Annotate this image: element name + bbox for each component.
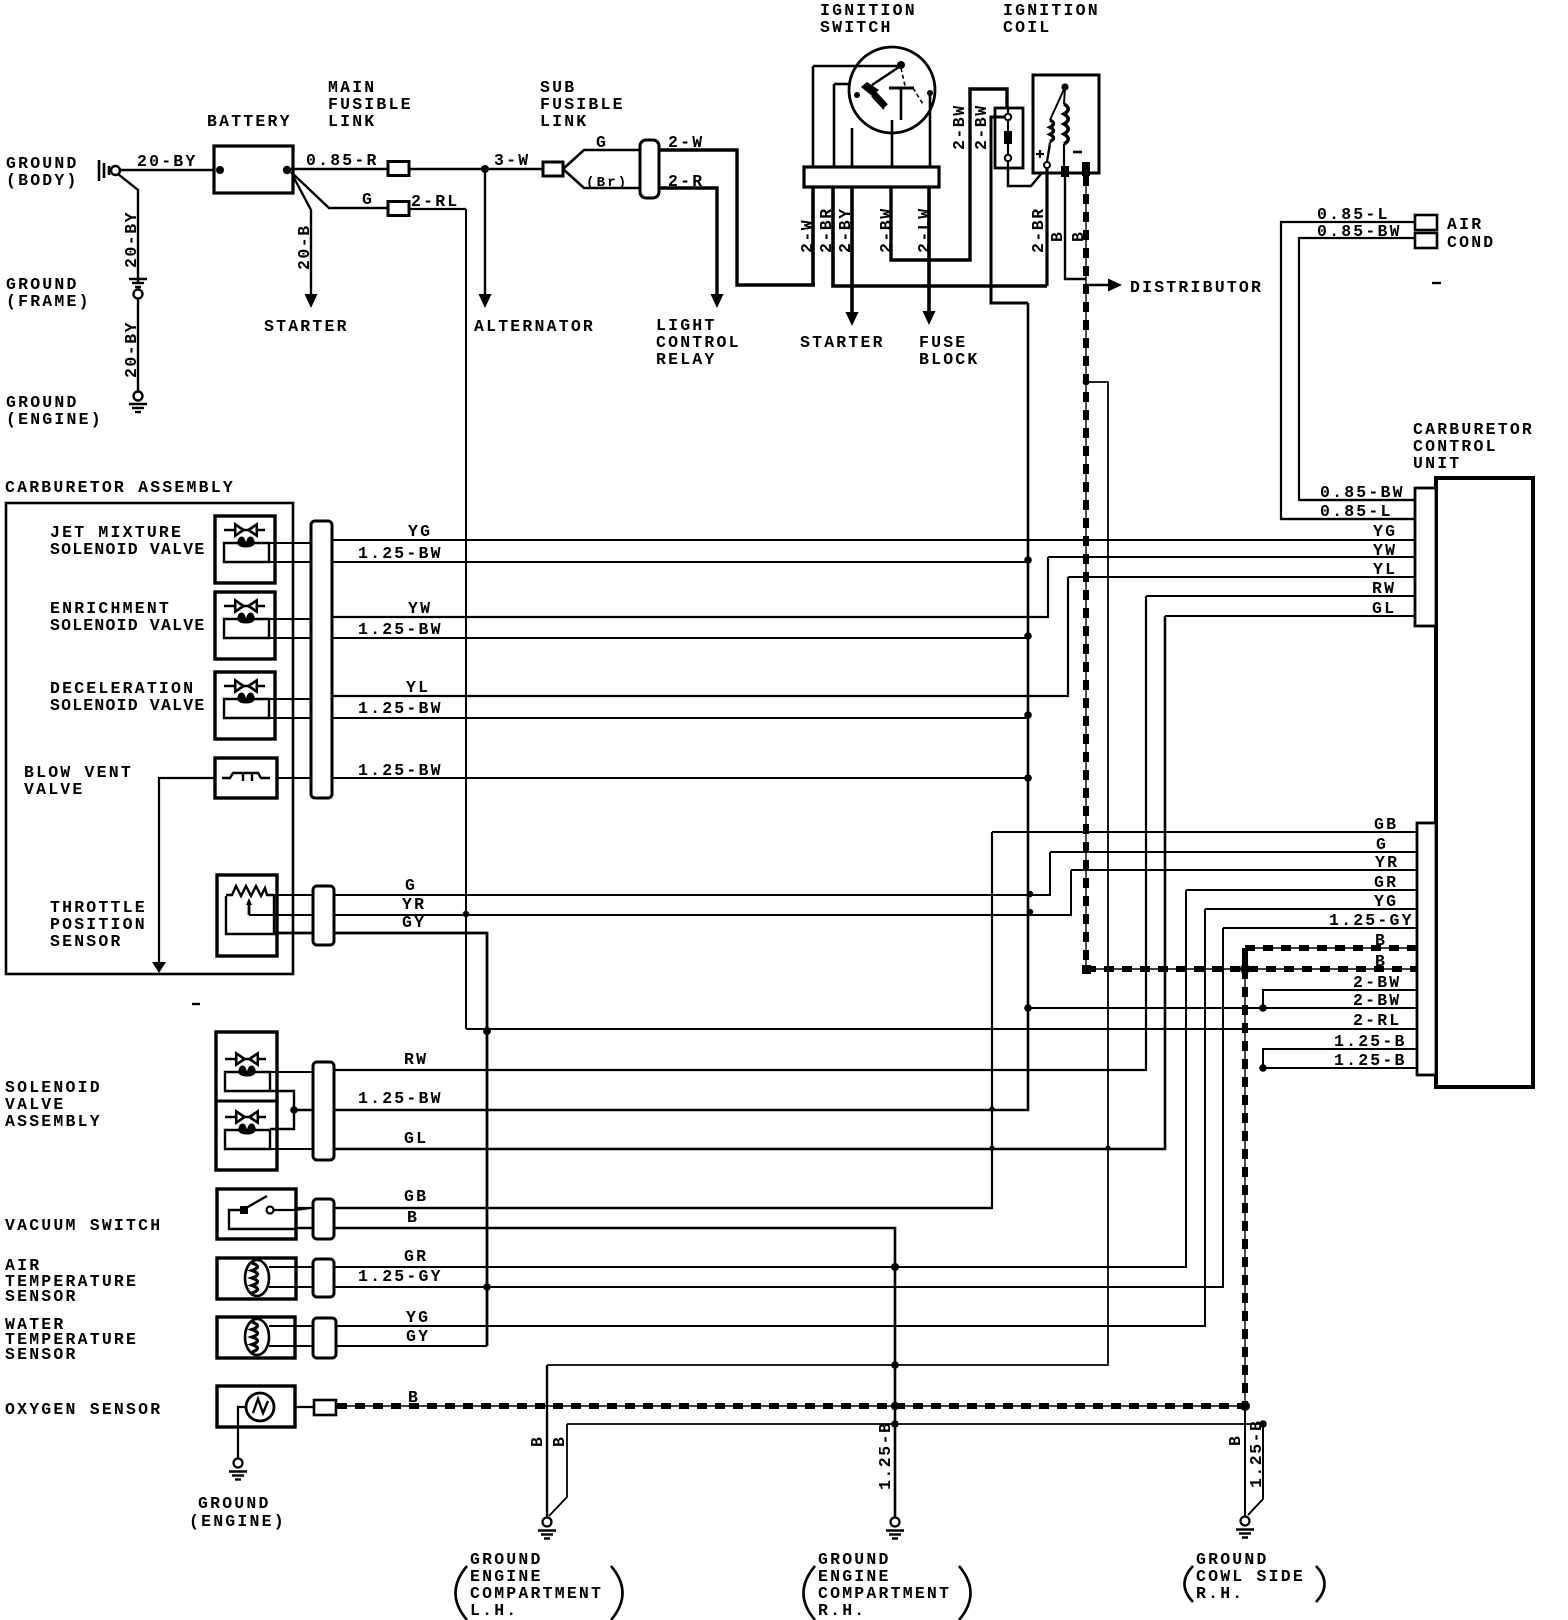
- wire GL to unit: [1165, 615, 1415, 617]
- svg-text:GB: GB: [404, 1187, 428, 1206]
- riser YR throttle: [249, 870, 1071, 915]
- wire 1.25-GY from sensor: [269, 1286, 313, 1288]
- wire 20-BY ground body to battery: [120, 169, 215, 172]
- svg-text:YG: YG: [1374, 892, 1398, 911]
- ground cowl side symbol: [1241, 1517, 1250, 1526]
- svg-text:B: B: [407, 1208, 419, 1227]
- wire oxygen sensor to ground: [238, 1407, 246, 1458]
- ignition switch frame: [834, 83, 849, 86]
- wire 1.25-BW enrichment to bus: [269, 637, 1028, 639]
- svg-text:LINK: LINK: [540, 112, 588, 131]
- svg-text:ASSEMBLY: ASSEMBLY: [5, 1112, 102, 1131]
- svg-text:BATTERY: BATTERY: [207, 112, 292, 131]
- svg-text:2-BW: 2-BW: [950, 104, 969, 150]
- junction dashed at cowl corner: [1240, 1401, 1250, 1411]
- junction dots scan blobs: [1027, 891, 1033, 897]
- svg-text:20-BY: 20-BY: [122, 321, 141, 378]
- oxygen sensor element: [246, 1393, 274, 1421]
- riser GR: [296, 890, 1186, 1267]
- svg-text:YR: YR: [402, 895, 426, 914]
- oxygen sensor ground symbol: [234, 1459, 243, 1468]
- svg-text:2-BR: 2-BR: [1029, 207, 1048, 253]
- riser 1.25-GY: [296, 928, 1223, 1287]
- wire 1.25-GY to unit: [1223, 927, 1416, 929]
- wire 0.85-BW into unit: [1299, 499, 1415, 501]
- wire YR to unit: [1071, 869, 1416, 871]
- svg-text:YW: YW: [1373, 541, 1397, 560]
- junction enrichment 1.25-BW: [1024, 632, 1032, 640]
- wire YG water to unit: [1205, 908, 1416, 910]
- wire GY throttle to gy bus: [274, 933, 487, 1346]
- wire 1.25-B second to unit: [1263, 1067, 1416, 1069]
- vacuum switch box: [217, 1189, 296, 1239]
- wire GR to unit: [1186, 889, 1416, 891]
- wire oxygen sensor to connector: [295, 1406, 314, 1408]
- svg-text:B: B: [1048, 231, 1067, 242]
- air temperature sensor box: [217, 1258, 296, 1299]
- svg-text:YR: YR: [1375, 853, 1399, 872]
- svg-text:1.25-BW: 1.25-BW: [358, 1089, 443, 1108]
- svg-text:20-B: 20-B: [295, 224, 314, 270]
- wire ground body down to frame/engine ground: [118, 174, 138, 283]
- ground engine compartment L.H. symbol: [543, 1518, 552, 1527]
- svg-text:SOLENOID VALVE: SOLENOID VALVE: [50, 616, 205, 635]
- svg-text:1.25-B: 1.25-B: [876, 1422, 895, 1490]
- svg-text:G: G: [1376, 835, 1388, 854]
- svg-text:G: G: [362, 190, 374, 209]
- blow vent element: [222, 773, 270, 781]
- wire 20-B battery to starter: [293, 176, 311, 296]
- carburetor control unit box: [1436, 478, 1533, 1087]
- wire YL to unit: [1068, 576, 1415, 578]
- svg-text:1.25-GY: 1.25-GY: [1329, 911, 1414, 930]
- svg-text:SENSOR: SENSOR: [5, 1287, 78, 1306]
- svg-text:RELAY: RELAY: [656, 350, 717, 369]
- condenser box: [995, 108, 1023, 168]
- svg-text:G: G: [596, 133, 608, 152]
- wire 2-W ignition vertical: [811, 187, 815, 285]
- ground engine compartment R.H. symbol: [891, 1518, 900, 1527]
- wire frame ground to engine ground: [137, 299, 139, 392]
- svg-text:SOLENOID VALVE: SOLENOID VALVE: [50, 540, 205, 559]
- svg-text:YL: YL: [1373, 560, 1397, 579]
- wire GB bar to riser: [334, 1207, 992, 1209]
- ground L.H. drop: [546, 1365, 548, 1517]
- svg-text:2-W: 2-W: [798, 219, 817, 253]
- svg-text:OXYGEN SENSOR: OXYGEN SENSOR: [5, 1400, 162, 1419]
- sub fusible link capsule: [640, 140, 659, 198]
- svg-text:VACUUM SWITCH: VACUUM SWITCH: [5, 1216, 162, 1235]
- throttle resistor zigzag: [226, 886, 274, 896]
- wire 1.25-BW jet to bus: [269, 561, 1028, 563]
- wire 2-BY ignition to starter: [850, 187, 854, 315]
- junction blow vent 1.25-BW: [1024, 774, 1032, 782]
- wire 0.85-L into unit: [1281, 518, 1415, 520]
- svg-text:1.25-B: 1.25-B: [1334, 1032, 1407, 1051]
- fuse main fusible link: [388, 162, 409, 176]
- svg-text:GR: GR: [404, 1247, 428, 1266]
- wire 2-BW ignition to coil: [891, 89, 1007, 260]
- wire YW to unit: [1048, 556, 1415, 558]
- oxygen sensor box: [217, 1386, 295, 1427]
- junction 1.25-GY on gy bus: [483, 1283, 491, 1291]
- svg-text:GROUND: GROUND: [198, 1494, 271, 1513]
- wire battery to 2-RL fuse: [291, 172, 388, 208]
- wire RW to unit: [1146, 595, 1415, 597]
- junction B at ground R.H.: [891, 1361, 899, 1369]
- svg-text:LINK: LINK: [328, 112, 376, 131]
- wire 2-R to light control relay: [659, 188, 717, 296]
- wire GB to unit: [992, 831, 1416, 833]
- solenoid valve assembly valve1 wires: [270, 1071, 313, 1073]
- wire G to unit: [1050, 851, 1416, 853]
- carburetor assembly box: [6, 503, 293, 974]
- svg-text:SENSOR: SENSOR: [5, 1345, 78, 1364]
- svg-text:1.25-BW: 1.25-BW: [358, 544, 443, 563]
- wire GL from valve2: [270, 1148, 313, 1150]
- svg-text:2-BW: 2-BW: [972, 104, 991, 150]
- wire YL from deceleration valve: [269, 698, 313, 700]
- coil plus terminal: [1036, 153, 1044, 155]
- svg-text:YG: YG: [406, 1308, 430, 1327]
- svg-text:0.85-BW: 0.85-BW: [1320, 483, 1405, 502]
- wire 2-LW ignition to fuse block: [927, 187, 931, 314]
- svg-text:B: B: [1375, 952, 1387, 971]
- junction dashed at ground R.H.: [891, 1402, 899, 1410]
- wire blow vent to assembly bottom: [159, 778, 215, 970]
- wire B dashed lower to unit: [1086, 968, 1416, 970]
- wire 1.25-B diagonal to ground L.H.: [549, 1424, 567, 1516]
- wire alternator drop: [484, 169, 486, 297]
- wire 1.25-B horizontal to grounds: [567, 1423, 1263, 1425]
- svg-text:0.85-R: 0.85-R: [306, 151, 379, 170]
- wire GY from water sensor: [269, 1345, 313, 1347]
- svg-text:GB: GB: [1374, 815, 1398, 834]
- wire 0.85-L to air cond: [1281, 222, 1415, 519]
- svg-text:SWITCH: SWITCH: [820, 18, 893, 37]
- svg-text:2-BY: 2-BY: [836, 207, 855, 253]
- ignition coil windings: [1061, 83, 1068, 90]
- wire 1.25-BW deceleration to bus: [269, 717, 1028, 719]
- wire 2-RL vertical down to control unit row: [465, 209, 467, 1029]
- wire YW from enrichment valve: [269, 618, 313, 620]
- wire YG from water sensor: [269, 1325, 313, 1327]
- svg-text:20-BY: 20-BY: [137, 152, 198, 171]
- svg-text:COND: COND: [1447, 233, 1495, 252]
- svg-text:1.25-BW: 1.25-BW: [358, 620, 443, 639]
- svg-text:GY: GY: [406, 1327, 430, 1346]
- svg-text:3-W: 3-W: [494, 151, 530, 170]
- wire 2-BW second to unit: [1028, 1007, 1416, 1009]
- svg-text:2-BW: 2-BW: [877, 207, 896, 253]
- svg-text:B: B: [528, 1436, 547, 1447]
- riser YL: [332, 577, 1068, 696]
- water temp connector bar: [313, 1318, 336, 1358]
- bus 2-BW vertical: [294, 303, 1028, 1110]
- wire 1.25-BW assembly to bus: [294, 1109, 311, 1111]
- unit upper connector strip: [1415, 488, 1436, 626]
- svg-text:B: B: [1375, 931, 1387, 950]
- dashed up corner to unit B: [1085, 968, 1087, 970]
- svg-text:ALTERNATOR: ALTERNATOR: [474, 317, 595, 336]
- svg-text:YG: YG: [1373, 522, 1397, 541]
- junction 2-BW to unit: [1024, 1004, 1032, 1012]
- svg-text:B: B: [408, 1388, 420, 1407]
- svg-text:YW: YW: [408, 599, 432, 618]
- wire B coil to distributor line: [1065, 177, 1086, 279]
- vacuum switch symbol: [229, 1210, 296, 1229]
- sub fusible link chevron: [563, 150, 640, 169]
- svg-text:2-BR: 2-BR: [817, 207, 836, 253]
- svg-text:AIR: AIR: [1447, 215, 1483, 234]
- coil bottom terminals: [1061, 166, 1069, 177]
- svg-text:UNIT: UNIT: [1413, 454, 1461, 473]
- coil minus terminal: [1073, 151, 1082, 154]
- stray mark: [1432, 282, 1441, 284]
- water temp sensor element: [245, 1319, 269, 1355]
- wire YG from jet valve: [269, 542, 311, 544]
- throttle wiper arrow: [246, 898, 252, 905]
- ground (engine) symbol: [134, 392, 143, 401]
- svg-text:1.25-GY: 1.25-GY: [358, 1267, 443, 1286]
- air temp sensor element: [245, 1260, 269, 1296]
- ignition switch connector bar: [804, 167, 939, 187]
- svg-text:(Br): (Br): [586, 175, 628, 191]
- wire YG jet mixture to unit: [332, 539, 1415, 541]
- wire 2-W to ignition switch: [659, 150, 815, 285]
- svg-text:RW: RW: [404, 1050, 428, 1069]
- connector sub fusible link: [543, 162, 563, 176]
- riser GB: [296, 832, 992, 1208]
- enrichment solenoid valve: [215, 592, 275, 659]
- svg-text:1.25-BW: 1.25-BW: [358, 699, 443, 718]
- svg-text:L.H.: L.H.: [470, 1601, 518, 1620]
- svg-text:GL: GL: [1372, 599, 1396, 618]
- wire 1.25-B to ground cowl side: [1248, 1424, 1263, 1515]
- svg-text:1.25-B: 1.25-B: [1334, 1051, 1407, 1070]
- solenoid valve assembly valve2: [225, 1116, 266, 1118]
- wire 2-BR ignition vertical: [833, 187, 1047, 286]
- wire 2-BR coil down: [1045, 168, 1048, 286]
- fuse 2-RL link: [388, 202, 409, 216]
- wire 1.25-B first to unit: [1263, 1049, 1416, 1068]
- solenoid valve assembly box: [216, 1032, 277, 1170]
- condenser element: [1007, 108, 1009, 114]
- wire 2-RL to vertical: [409, 208, 466, 210]
- svg-text:STARTER: STARTER: [264, 317, 349, 336]
- svg-text:1.25-B: 1.25-B: [1247, 1420, 1266, 1488]
- junction alternator: [481, 165, 489, 173]
- ignition coil box: [1033, 75, 1099, 173]
- wire GY water temp to gy bus: [296, 1345, 487, 1347]
- wire B to ground cowl side: [1244, 1406, 1246, 1516]
- ignition switch circle: [849, 47, 935, 133]
- svg-text:BLOCK: BLOCK: [919, 350, 980, 369]
- wire 0.85-BW to air cond: [1299, 238, 1415, 500]
- svg-text:(FRAME): (FRAME): [6, 292, 91, 311]
- svg-text:2-BW: 2-BW: [1353, 991, 1401, 1010]
- wire 2-BW condenser branch: [991, 117, 1028, 303]
- riser RW: [334, 596, 1146, 1070]
- oxygen connector: [314, 1400, 336, 1415]
- riser YG water: [296, 909, 1205, 1326]
- wire GR from sensor: [269, 1266, 313, 1268]
- wire B branch from distributor line: [547, 382, 1108, 1365]
- svg-text:DISTRIBUTOR: DISTRIBUTOR: [1130, 278, 1263, 297]
- svg-text:0.85-L: 0.85-L: [1320, 502, 1393, 521]
- svg-text:SOLENOID VALVE: SOLENOID VALVE: [50, 696, 205, 715]
- solenoid valve assembly valve1: [225, 1058, 266, 1060]
- dashed corner at cowl: [1244, 969, 1246, 1406]
- wire 2-RL to unit: [466, 1028, 1416, 1030]
- dashed corner blob: [1082, 965, 1091, 974]
- throttle inner rect: [226, 896, 274, 934]
- svg-text:(BODY): (BODY): [6, 171, 79, 190]
- svg-text:(ENGINE): (ENGINE): [6, 410, 103, 429]
- wire 2-BW first to unit: [1263, 990, 1416, 1008]
- riser GL: [334, 616, 1165, 1149]
- deceleration solenoid valve: [215, 672, 275, 739]
- ground (frame) symbol: [129, 278, 147, 280]
- water temperature sensor box: [217, 1317, 295, 1358]
- unit lower connector strip: [1417, 823, 1436, 1075]
- vacuum connector bar: [313, 1199, 334, 1239]
- svg-text:2-LW: 2-LW: [915, 207, 934, 253]
- wire to distributor: [1086, 284, 1112, 287]
- junction deceleration 1.25-BW: [1024, 711, 1032, 719]
- junction jet 1.25-BW: [1024, 556, 1032, 564]
- riser G throttle: [267, 852, 1050, 895]
- air temp connector bar: [313, 1259, 334, 1297]
- battery: [214, 146, 293, 193]
- ground (body) symbol: [98, 160, 101, 181]
- throttle connector bar: [313, 886, 334, 945]
- svg-text:R.H.: R.H.: [1196, 1584, 1244, 1603]
- stray tick: [192, 1003, 200, 1005]
- air cond connector boxes: [1415, 215, 1437, 230]
- wire B vacuum switch to ground bus: [296, 1228, 895, 1517]
- valve connector bar: [311, 521, 332, 798]
- svg-text:2-BW: 2-BW: [1353, 973, 1401, 992]
- svg-text:0.85-BW: 0.85-BW: [1317, 222, 1402, 241]
- svg-text:CARBURETOR ASSEMBLY: CARBURETOR ASSEMBLY: [5, 478, 235, 497]
- svg-text:GR: GR: [1374, 873, 1398, 892]
- svg-text:STARTER: STARTER: [800, 333, 885, 352]
- svg-text:YG: YG: [408, 522, 432, 541]
- wire condenser to coil plus terminal: [1008, 168, 1046, 186]
- svg-text:VALVE: VALVE: [24, 780, 85, 799]
- wire 0.85-R battery to main fusible link: [291, 168, 388, 170]
- svg-text:R.H.: R.H.: [818, 1601, 866, 1620]
- wire oxygen sensor B dashed: [337, 1405, 1245, 1407]
- wire B dashed upper to unit: [1245, 947, 1416, 949]
- throttle position sensor: [217, 875, 277, 956]
- ignition switch internals: [897, 61, 905, 69]
- svg-text:G: G: [405, 876, 417, 895]
- wire 1.25-BW blow vent to bus: [277, 777, 1028, 779]
- svg-text:(ENGINE): (ENGINE): [189, 1512, 286, 1531]
- wire GB from switch: [274, 1209, 296, 1211]
- svg-text:2-RL: 2-RL: [1353, 1011, 1401, 1030]
- svg-text:YL: YL: [406, 678, 430, 697]
- riser YW: [332, 557, 1048, 617]
- jet mixture solenoid valve: [215, 516, 275, 583]
- svg-text:GL: GL: [404, 1129, 428, 1148]
- solenoid assembly connector bar: [313, 1062, 334, 1160]
- svg-text:SENSOR: SENSOR: [50, 932, 123, 951]
- svg-text:20-BY: 20-BY: [122, 211, 141, 268]
- svg-text:COIL: COIL: [1003, 18, 1051, 37]
- wire B distributor dashed vertical: [1085, 176, 1087, 969]
- svg-text:GY: GY: [402, 913, 426, 932]
- blow vent valve: [215, 758, 277, 798]
- svg-text:B: B: [1226, 1435, 1245, 1446]
- svg-text:RW: RW: [1372, 579, 1396, 598]
- valve1 coil bottom jumper: [270, 1091, 294, 1129]
- wire 0.85-R fuse to 3-W junction: [409, 168, 545, 170]
